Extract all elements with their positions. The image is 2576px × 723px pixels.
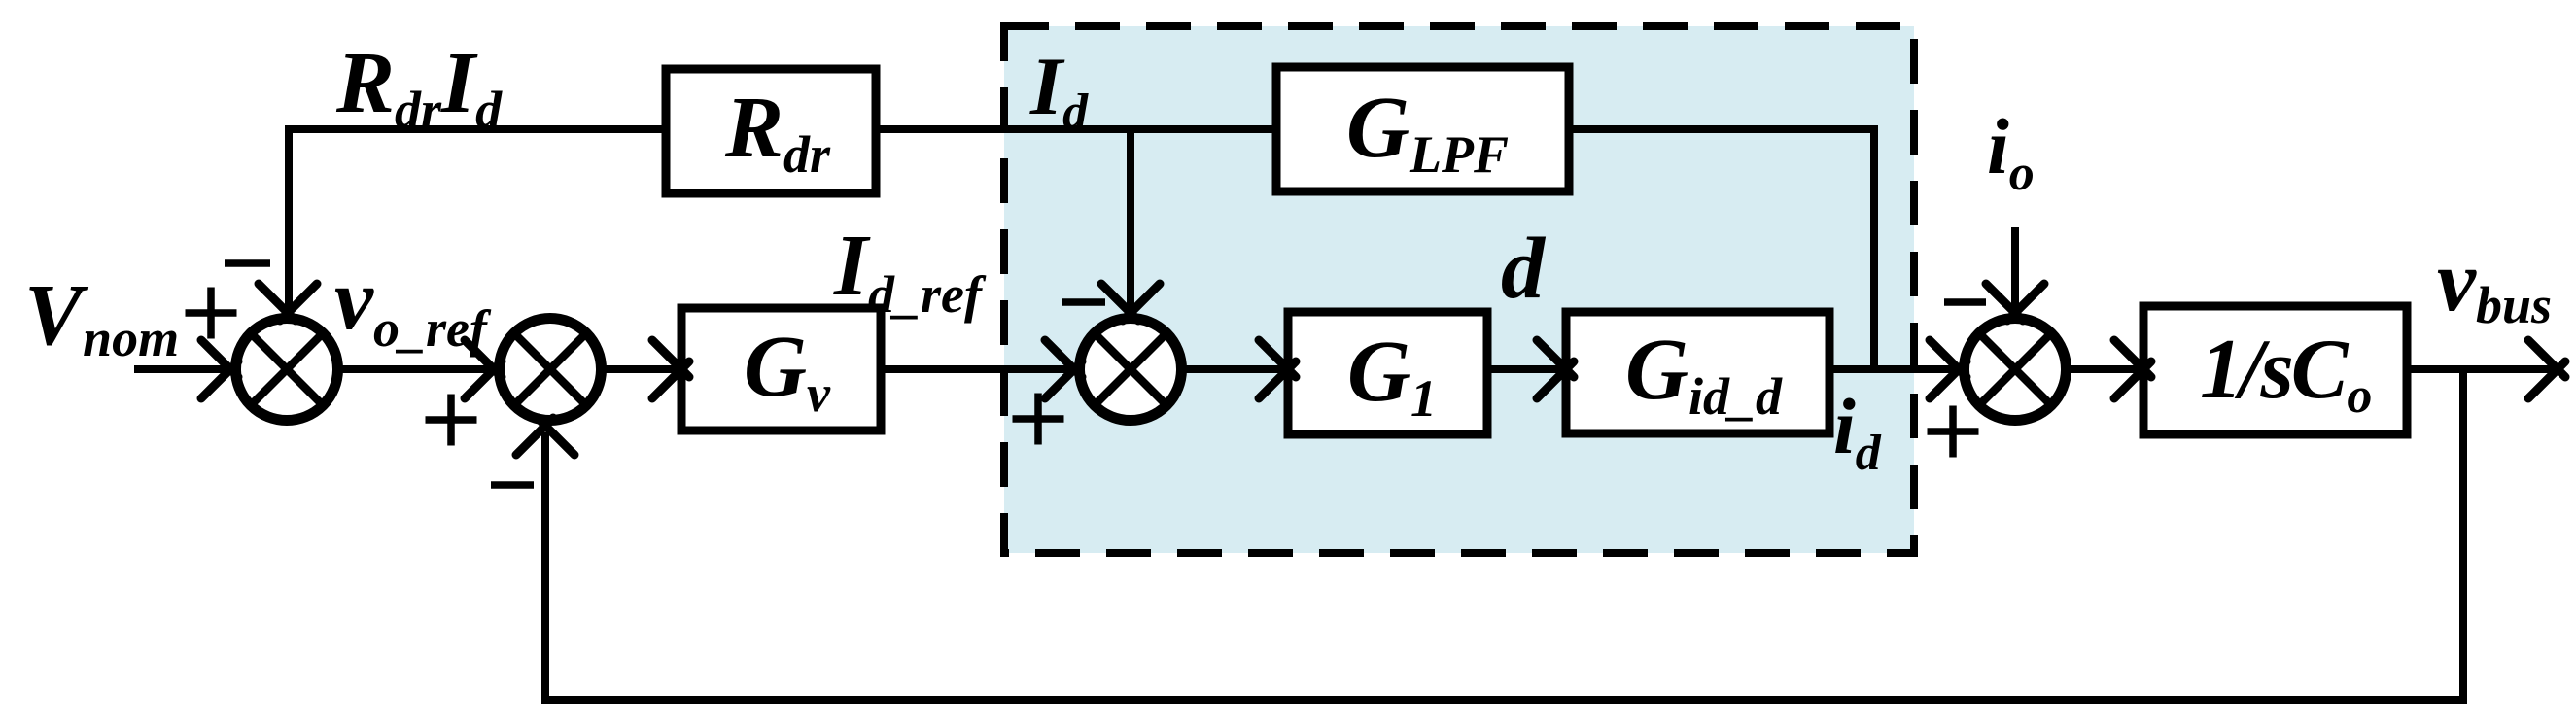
block G_v bbox=[681, 308, 881, 430]
arrowhead v_bus output bbox=[2528, 340, 2565, 398]
plus sign at J4 i_d input bbox=[1928, 406, 1979, 458]
arrowhead d into Gid_d bbox=[1537, 340, 1574, 398]
block G_1 bbox=[1288, 312, 1487, 434]
arrowhead v_bus feedback into J2 bottom bbox=[516, 418, 574, 455]
wire: V_nom input bbox=[134, 365, 243, 373]
arrowhead I_d into J3 top bbox=[1101, 284, 1160, 321]
wire: J3 to G1 bbox=[1182, 365, 1293, 373]
summing junction J4 (capacitor node) bbox=[1965, 319, 2067, 421]
arrowhead into G1 bbox=[1259, 340, 1296, 398]
arrowhead v_o_ref into J2 bbox=[465, 340, 502, 398]
svg-text:d: d bbox=[1501, 221, 1547, 317]
summing junction J3 (current loop) bbox=[1080, 319, 1182, 421]
converter subsystem dashed border bbox=[1004, 26, 1914, 553]
arrowhead into 1/sCo bbox=[2114, 340, 2151, 398]
block R_dr bbox=[666, 69, 876, 193]
arrowhead droop feedback into J1 top bbox=[259, 284, 317, 321]
minus sign at J4 i_o input bbox=[1944, 298, 1986, 306]
wire: G1 to Gid_d bbox=[1487, 365, 1571, 373]
plus sign at J2 v_o_ref input bbox=[426, 395, 477, 446]
wire: Gv to J3 bbox=[881, 365, 1081, 373]
plus sign at J1 V_nom input bbox=[186, 288, 237, 339]
wire: i_d tap up through G_LPF, R_dr to J1 (droop feedback) bbox=[289, 129, 1874, 369]
summing junction J1 (droop) bbox=[236, 319, 338, 421]
minus sign at J3 I_d input bbox=[1062, 298, 1105, 306]
wire: v_bus bottom feedback loop to J2 bbox=[545, 369, 2463, 700]
wire: J4 to 1/sCo bbox=[2067, 365, 2148, 373]
wire: I_d node drop into J3 bbox=[1127, 129, 1134, 321]
block G_LPF bbox=[1276, 67, 1569, 191]
arrowhead into Gv bbox=[652, 340, 689, 398]
arrowhead I_d_ref into J3 bbox=[1045, 340, 1082, 398]
block 1/sCo bbox=[2143, 306, 2407, 434]
plus sign at J3 I_d_ref input bbox=[1013, 394, 1064, 445]
wire: J2 to Gv bbox=[602, 365, 686, 373]
minus sign at J1 droop input bbox=[225, 259, 270, 267]
arrowhead i_d into J4 bbox=[1930, 340, 1967, 398]
summing junction J2 (voltage loop) bbox=[500, 319, 602, 421]
minus sign at J2 feedback input bbox=[491, 481, 534, 489]
arrowhead i_o into J4 top bbox=[1986, 284, 2044, 321]
wire: Gid_d to J4 bbox=[1829, 365, 1964, 373]
wire: J1 to J2 bbox=[338, 365, 501, 373]
converter subsystem shaded region bbox=[1004, 26, 1914, 553]
wire: v_bus output bbox=[2407, 365, 2555, 373]
block G_id_d bbox=[1566, 312, 1829, 433]
wire: i_o input into J4 bbox=[2011, 227, 2019, 321]
arrowhead V_nom into J1 bbox=[201, 340, 238, 398]
